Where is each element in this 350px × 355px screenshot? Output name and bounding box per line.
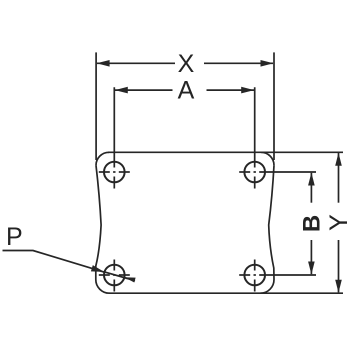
arrowhead B top <box>308 173 315 186</box>
dimension line Y top segment <box>338 153 340 203</box>
arrowhead B bottom <box>308 262 315 275</box>
dimension line X right segment <box>204 62 273 64</box>
hole bottom-left center marks <box>99 260 130 292</box>
plate outline left edge <box>96 165 101 279</box>
arrowhead Y bottom <box>335 280 342 293</box>
plate outline top edge (continues right as Y top extension line) <box>108 151 343 153</box>
plate outline bottom-right corner arc <box>260 280 274 294</box>
dimension line B top segment <box>310 173 312 203</box>
svg-text:X: X <box>178 50 195 78</box>
extension line A right (continues down into top-right hole center mark) <box>254 87 256 167</box>
arrowhead A left <box>115 87 128 94</box>
plate outline top-left corner arc <box>96 152 109 165</box>
hole diameter line P (through bottom-left hole) <box>104 272 135 281</box>
arrowhead Y top <box>335 153 342 166</box>
arrowhead X left <box>97 60 110 67</box>
arrowhead X right <box>261 60 274 67</box>
hole bottom-left circle <box>104 265 125 286</box>
extension line B top (from top-right hole east center mark) <box>259 171 316 173</box>
extension line X left <box>95 52 97 160</box>
plate outline bottom edge (continues right as Y bottom extension line) <box>109 292 343 294</box>
arrowhead A right <box>241 87 254 94</box>
svg-text:P: P <box>6 223 23 251</box>
extension line A left (continues down into top-left hole center mark) <box>113 87 115 167</box>
hole bottom-right center marks <box>239 260 256 292</box>
dimension line Y bottom segment <box>338 240 340 292</box>
dimension line B bottom segment <box>310 240 312 274</box>
arrowhead P left (at left edge of bottom-left hole) <box>91 265 104 272</box>
dimension line X left segment <box>97 62 175 64</box>
hole top-right center marks <box>239 172 256 189</box>
hole top-left center marks <box>99 172 130 189</box>
svg-text:A: A <box>178 76 195 104</box>
dimension line A right segment <box>207 89 255 91</box>
plate outline top-right corner arc <box>261 152 274 165</box>
hole top-left circle <box>104 162 125 183</box>
plate outline right edge <box>269 165 274 279</box>
arrowhead P right (at right edge of bottom-left hole, pointing back) <box>125 277 136 282</box>
leader line P <box>3 251 105 273</box>
hole bottom-right circle <box>244 265 265 286</box>
plate outline bottom-left corner arc <box>96 280 110 294</box>
extension line X right <box>273 52 275 160</box>
svg-text:Y: Y <box>325 214 350 231</box>
dimension line A left segment <box>115 89 173 91</box>
extension line B bottom (from bottom-right hole east center mark) <box>259 274 316 276</box>
hole top-right circle <box>244 162 265 183</box>
svg-text:B: B <box>299 215 326 232</box>
